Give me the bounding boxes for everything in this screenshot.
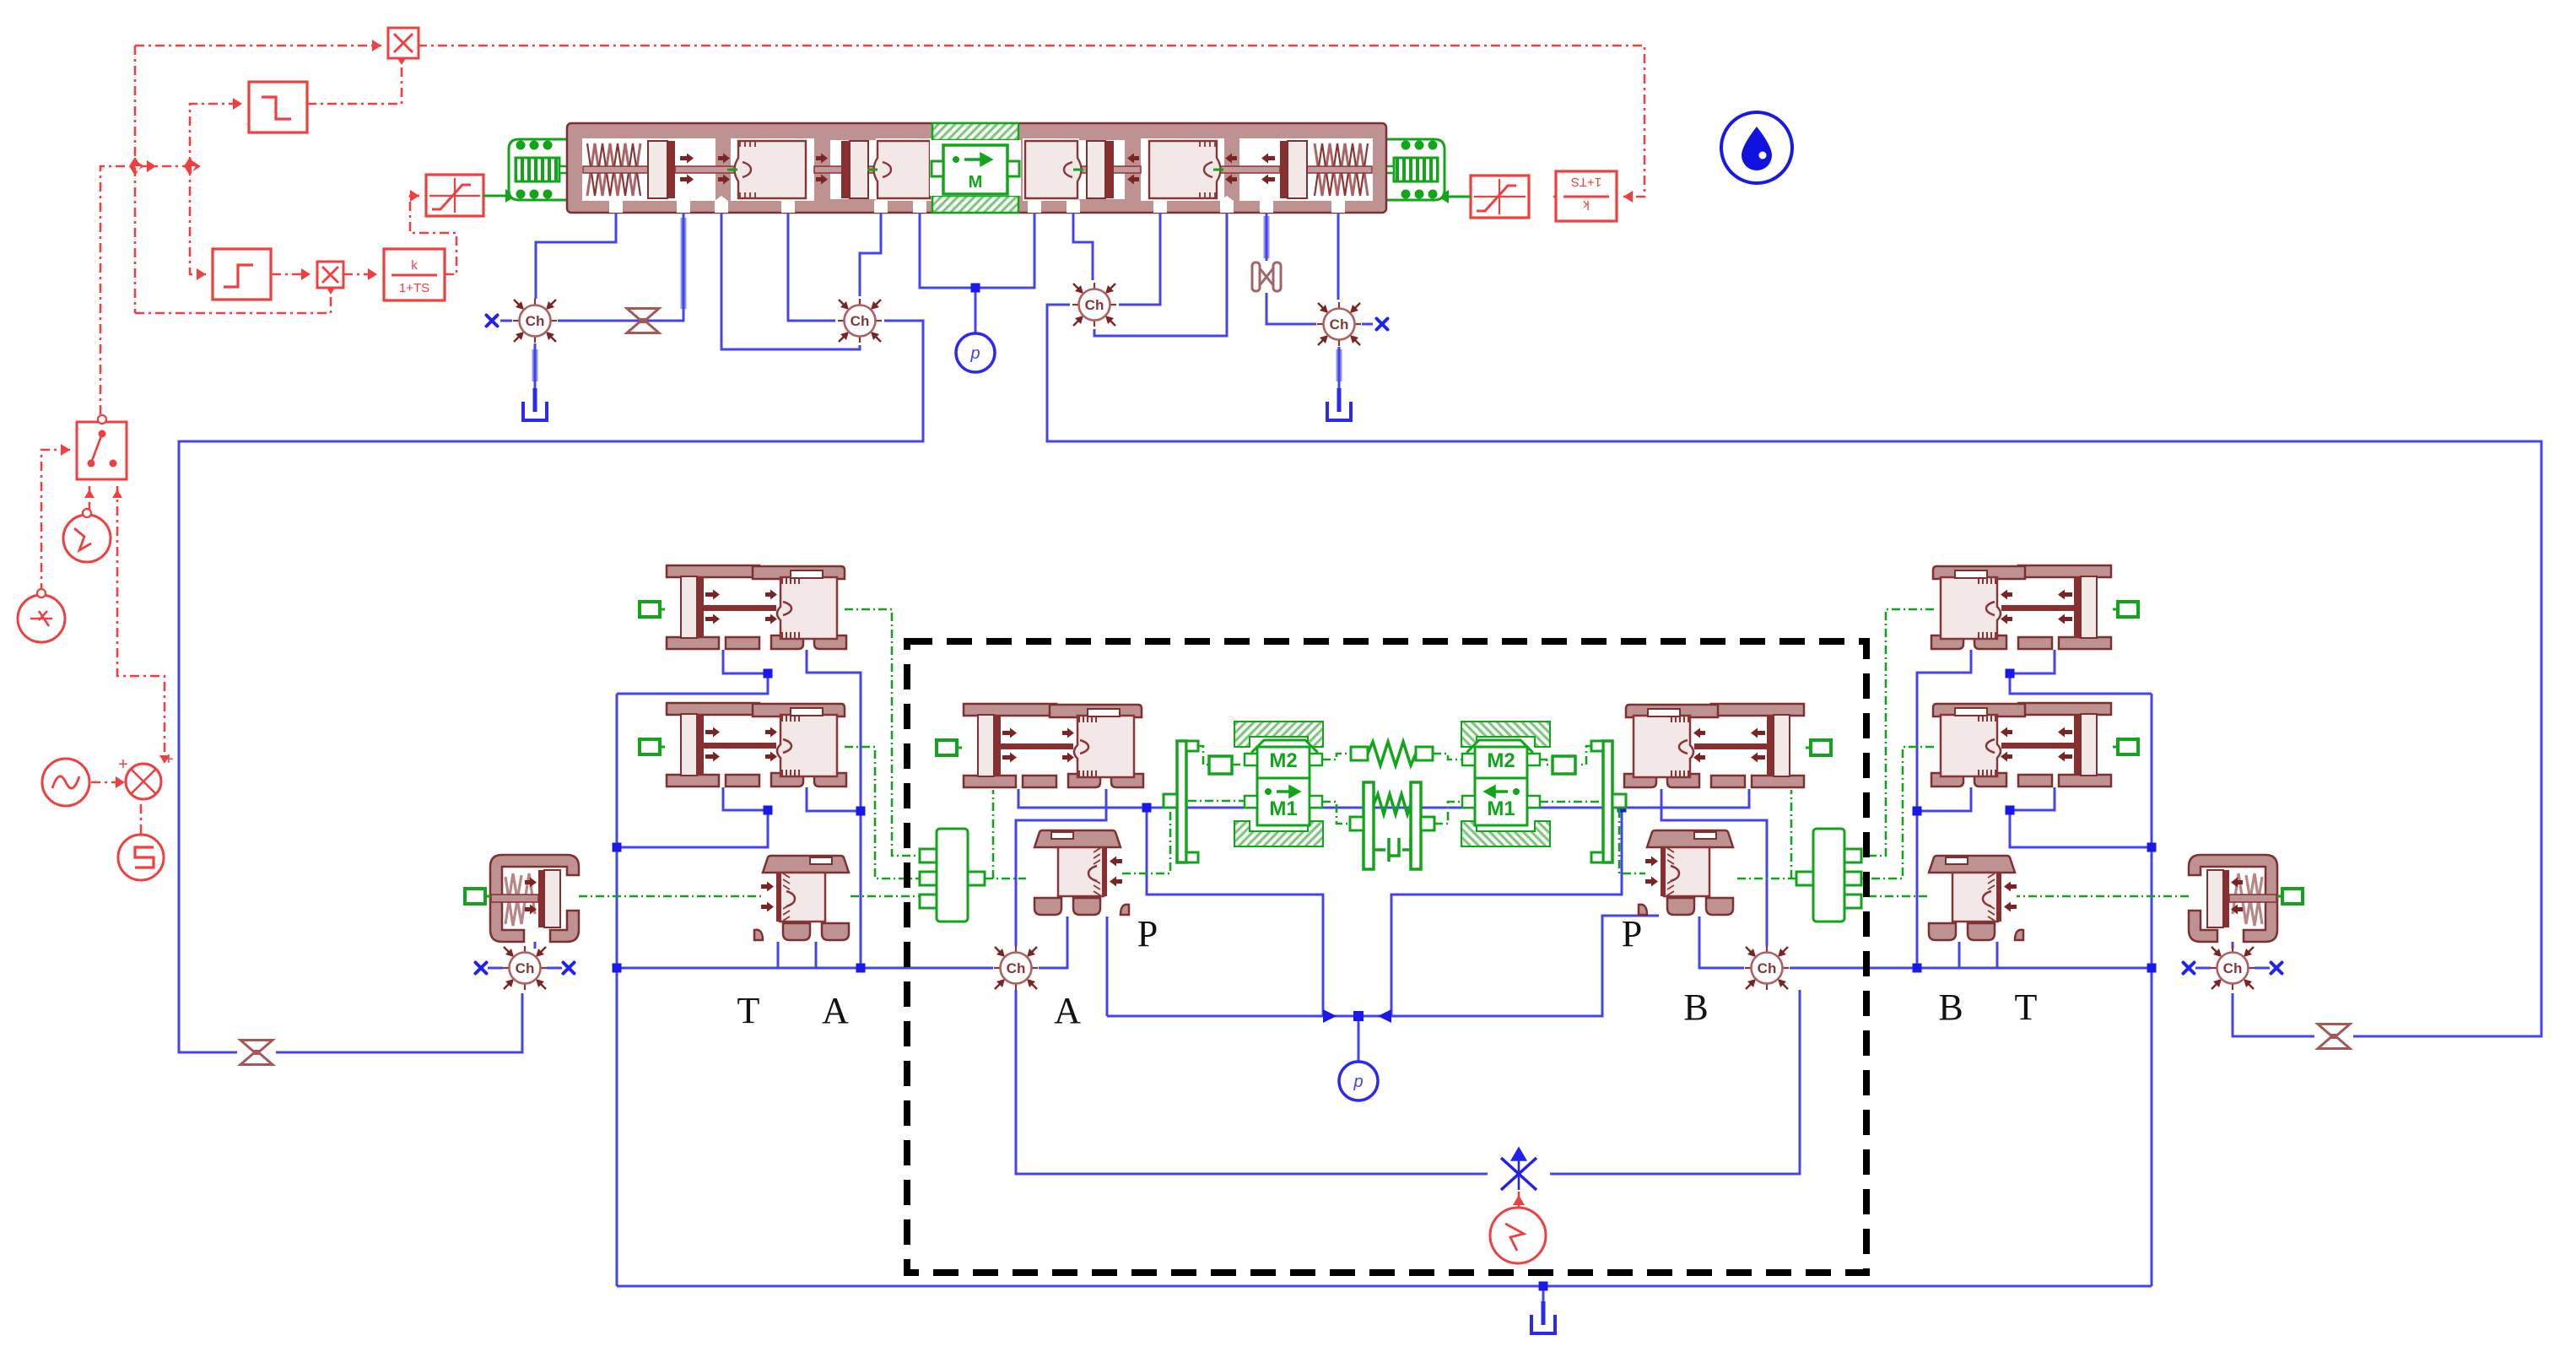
wire: right bus bbox=[2151, 694, 2153, 1286]
switch block bbox=[77, 415, 127, 479]
svg-text:T: T bbox=[737, 990, 760, 1031]
junction node arrows bbox=[129, 157, 156, 176]
chamber under relief right bbox=[2211, 946, 2255, 990]
wire: X cap links chamber BL bbox=[488, 967, 562, 970]
white cavities right half bbox=[1023, 138, 1373, 201]
fluid properties drop icon bbox=[1721, 112, 1792, 183]
valve L1 bbox=[667, 565, 846, 649]
wire: R3 ports bbox=[1959, 942, 1997, 968]
junction node (1156,341) bbox=[971, 284, 980, 293]
wire: Ch2 top jog to stub bbox=[860, 213, 881, 296]
wire: R1 command down bbox=[1861, 609, 1934, 856]
junction node (731,1147) bbox=[613, 964, 622, 973]
svg-text:M2: M2 bbox=[1269, 749, 1297, 772]
wire: interface right to pilot P-right bbox=[1735, 878, 1796, 880]
pressure gauge bottom bbox=[1339, 1062, 1378, 1100]
wire: cross line between box top valves bbox=[1018, 789, 1749, 808]
command stub R2 bbox=[2113, 739, 2138, 754]
chamber Ch3 bbox=[1072, 283, 1116, 327]
wire: A bus to chamber A bbox=[617, 967, 993, 970]
wire: chamber A bottom loop with variable orifice bbox=[1016, 990, 1488, 1174]
relief valve left bbox=[490, 855, 579, 942]
wire: signal source to switch bbox=[89, 486, 91, 511]
junction node (2550,1004) bbox=[2147, 843, 2157, 852]
pilot valve L3 bbox=[754, 856, 849, 940]
junction node (2382,960) bbox=[2006, 806, 2015, 815]
wire: sum output up to switch bbox=[117, 486, 165, 760]
wire: M2 left to spring bbox=[1322, 754, 1351, 760]
wire: L2 command down to interface port2 bbox=[845, 747, 920, 879]
wire: relief left to chamber bbox=[534, 942, 537, 949]
wire: Ch1 left cap bbox=[500, 320, 512, 322]
wire: feedback top line into multiplier bbox=[135, 45, 381, 47]
valve box-left-top bbox=[964, 704, 1143, 787]
wire: R2 right port bbox=[2010, 787, 2152, 847]
closed port X at Ch4 bbox=[1377, 319, 1388, 330]
wire: up into step-down block bbox=[190, 104, 242, 166]
svg-text:A: A bbox=[1054, 990, 1081, 1031]
svg-text:P: P bbox=[1622, 913, 1642, 954]
pilot valve P left bbox=[1034, 830, 1129, 915]
sine source bbox=[42, 759, 89, 806]
wire: step-up to small multiplier bbox=[272, 273, 311, 276]
pilot valve P right bbox=[1639, 830, 1733, 915]
connector box right bbox=[1553, 756, 1575, 774]
wire: R1 right port to right bus bbox=[2010, 650, 2152, 694]
port labels bbox=[737, 913, 2038, 1031]
wire: L2 poppet port bbox=[807, 787, 861, 811]
multiplier block X1 bbox=[388, 28, 419, 58]
junction node (1020,961) bbox=[856, 807, 866, 816]
tank bottom bbox=[1531, 1301, 1555, 1333]
wire: M2 right to connector box right bbox=[1540, 760, 1553, 765]
wire: stub through seat valve to Ch4 bbox=[1266, 213, 1316, 324]
wire: supply U bottom bbox=[1107, 916, 1659, 1016]
transfer function block right (rotated text) bbox=[1556, 171, 1617, 221]
wire: stub to Ch3 top bbox=[1073, 213, 1093, 280]
wire: transfer out up to saturation bbox=[410, 196, 456, 274]
pilot valve R3 bbox=[1929, 856, 2023, 940]
svg-text:+: + bbox=[164, 750, 174, 769]
wire: k gain up to switch input bbox=[41, 450, 70, 592]
chamber Ch2 bbox=[838, 299, 882, 343]
white cavities left half bbox=[582, 138, 932, 201]
svg-text:A: A bbox=[822, 990, 849, 1031]
wire: Ch3 bottom across to stub bbox=[1094, 213, 1227, 336]
chamber under relief left bbox=[503, 946, 547, 990]
interface block right bbox=[1796, 829, 1861, 922]
wire: M1 right to bracket right bbox=[1540, 801, 1601, 803]
wire: bracket top to connector box bbox=[1196, 746, 1209, 765]
wire: tank stub bottom bbox=[1542, 1286, 1545, 1310]
wire: Ch1 bottom to tank bbox=[534, 343, 537, 390]
wire: junction to junction bbox=[142, 165, 190, 168]
green link right saturation to solenoid bbox=[1448, 196, 1471, 198]
wire: R2 poppet port bbox=[1917, 787, 1971, 811]
wire: chamber B top to box valve bbox=[1661, 789, 1767, 946]
wire: square gen to sum bbox=[140, 802, 143, 834]
wire: sine to sum bbox=[91, 781, 122, 784]
wire: stub to Ch1 top bbox=[536, 213, 616, 299]
connector box left bbox=[1209, 756, 1232, 774]
svg-text:+: + bbox=[118, 755, 128, 774]
junction node (1020,1147) bbox=[856, 964, 866, 973]
junction node (2382,798) bbox=[2006, 669, 2015, 678]
command stub relief right bbox=[2277, 889, 2303, 904]
wire: pilot R3 to interface right bbox=[1861, 895, 1927, 898]
junction arrows at supply tee bbox=[1323, 1009, 1391, 1023]
wire: P-left to bracket left bbox=[1122, 809, 1170, 873]
wire: R2 command down bbox=[1861, 747, 1934, 879]
wire: spring to M2 right bbox=[1433, 754, 1462, 760]
wire: pipe1 Ch2 right, long loop to bottom-left chamber bbox=[179, 321, 923, 1052]
command stub relief left bbox=[465, 889, 490, 904]
chamber Ch4 bbox=[1317, 302, 1361, 346]
wire: relief right to chamber bbox=[2232, 942, 2234, 949]
mass assembly left bbox=[1234, 722, 1323, 846]
wire: interface to pilot P-left bbox=[985, 878, 1026, 880]
wire: small multiplier to transfer bbox=[343, 273, 377, 276]
central green mass M with hatched pads bbox=[932, 123, 1018, 140]
wire: B bus chamber B to right bus bbox=[1790, 967, 2152, 970]
tank under Ch4 bbox=[1327, 388, 1351, 420]
tank under Ch1 bbox=[523, 388, 547, 420]
wire: X cap links chamber BR bbox=[2195, 967, 2270, 970]
wire: spring-damper to M1 right bbox=[1434, 802, 1462, 824]
closed port X at Ch1 bbox=[487, 316, 498, 327]
wire: down into step-up block bbox=[190, 166, 206, 274]
wire: center U with gauge bbox=[920, 213, 1034, 332]
wire: chamber A top to box valve bbox=[1016, 789, 1106, 946]
interface block left bbox=[920, 829, 985, 922]
svg-text:M: M bbox=[969, 173, 983, 192]
svg-text:T: T bbox=[2015, 987, 2038, 1028]
force bracket left bbox=[1164, 741, 1198, 862]
chamber Ch1 bbox=[513, 299, 557, 343]
wire: left vertical trunk bbox=[134, 46, 137, 313]
command stub box-right bbox=[1806, 740, 1831, 755]
orifice bottom-left bbox=[240, 1041, 273, 1065]
relief valve right bbox=[2189, 855, 2277, 942]
square wave source bbox=[118, 835, 164, 880]
svg-text:B: B bbox=[1938, 987, 1963, 1028]
svg-text:P: P bbox=[1137, 913, 1158, 954]
wire: L2 left port bbox=[617, 787, 768, 847]
wire: bracket right top link bbox=[1580, 746, 1593, 765]
orifice bottom-right bbox=[2318, 1025, 2350, 1049]
saturation block left bbox=[426, 175, 483, 216]
valve box-right-top bbox=[1624, 704, 1804, 787]
svg-text:B: B bbox=[1683, 987, 1708, 1028]
wire: branch up to box valve command bbox=[992, 790, 995, 879]
wire: L1 poppet port down right bus bbox=[807, 650, 861, 968]
signal generator red bottom bbox=[1490, 1192, 1546, 1263]
spring-damper with end plates bbox=[1350, 782, 1434, 869]
wire: branch up right box valve command bbox=[1790, 790, 1793, 879]
wire: Ch4 right cap bbox=[1362, 323, 1373, 326]
wire: relief L to pilot L3 bbox=[579, 895, 761, 898]
wire: switch output up to junction bbox=[100, 166, 128, 414]
junction node (2272,1147) bbox=[1913, 964, 1922, 973]
junction node (731,1004) bbox=[613, 843, 622, 852]
wire: stub to Ch2 left bbox=[788, 213, 835, 321]
solenoid right bbox=[1369, 132, 1445, 207]
wire: pilot L3 to interface bbox=[851, 895, 920, 898]
orifice near Ch1 bbox=[627, 309, 659, 333]
svg-text:k: k bbox=[1583, 197, 1590, 212]
wire: multiplier output to right transfer block bbox=[418, 46, 1644, 197]
chamber A bbox=[994, 946, 1038, 990]
wire: Ch4 top bbox=[1337, 213, 1340, 300]
wire: R1 poppet port down bbox=[1917, 650, 1971, 968]
wire: bottom feedback line bbox=[135, 294, 331, 313]
command stub box-left bbox=[937, 740, 962, 755]
junction node (2272,961) bbox=[1913, 807, 1922, 816]
wire: step-down out to multiplier bottom bbox=[307, 64, 402, 104]
wire: chamber A right to pilot P left bbox=[1039, 916, 1067, 968]
transfer function block k/(1+TS) left bbox=[384, 249, 445, 300]
junction node (1829,1524) bbox=[1539, 1282, 1548, 1291]
wire: bottom return line bbox=[617, 1285, 2152, 1288]
wire: gauge stub bbox=[1358, 1016, 1360, 1061]
bottom port gaps bbox=[609, 196, 1345, 213]
svg-text:1+TS: 1+TS bbox=[399, 281, 429, 295]
X caps chamber BR bbox=[2184, 963, 2195, 974]
seat valve symbol bbox=[1252, 262, 1281, 291]
k gain circle bbox=[18, 589, 65, 642]
command stub L2 bbox=[640, 739, 665, 754]
wire: Ch4 bottom to tank bbox=[1338, 347, 1341, 390]
wire: L1 left port to left bus bbox=[617, 650, 768, 694]
wire: left bus bbox=[616, 694, 618, 1286]
wire: L1 command down to interface port1 bbox=[845, 609, 920, 856]
chamber B bbox=[1745, 946, 1789, 990]
wire: P left port down to supply U bbox=[1106, 916, 1109, 1016]
wire: pipe2 Ch3 left long loop to bottom-right chamber bbox=[1047, 305, 2541, 1036]
svg-text:1+TS: 1+TS bbox=[1571, 175, 1601, 189]
multiplier block X2 bbox=[317, 262, 343, 288]
junction node (2550,1147) bbox=[2147, 964, 2157, 973]
summing junction bbox=[118, 750, 174, 799]
valve L2 bbox=[667, 703, 846, 787]
wire: stub to Ch2 bottom bbox=[721, 213, 860, 349]
svg-text:k: k bbox=[411, 258, 418, 273]
spring between masses bbox=[1351, 742, 1433, 765]
step-down block bbox=[249, 82, 307, 132]
valve body bbox=[567, 123, 1386, 213]
command stub R1 bbox=[2113, 602, 2138, 617]
variable orifice bbox=[1501, 1149, 1536, 1190]
svg-text:M1: M1 bbox=[1269, 797, 1297, 820]
solenoid left bbox=[509, 132, 585, 207]
junction node (1922,957) bbox=[1617, 803, 1627, 813]
wire: bracket to M1 left bbox=[1188, 800, 1245, 803]
step-up block bbox=[213, 249, 271, 300]
junction node (910,960) bbox=[764, 806, 773, 815]
valve R2 bbox=[1931, 703, 2111, 787]
wire: L3 ports bbox=[778, 942, 816, 968]
force bracket right bbox=[1591, 741, 1626, 862]
signal source circle bbox=[63, 509, 111, 562]
pressure gauge top bbox=[956, 333, 995, 372]
wire: bracket right to P-right bbox=[1619, 809, 1645, 873]
spool internals left half bbox=[583, 141, 930, 198]
valve R1 bbox=[1931, 565, 2111, 649]
saturation block right bbox=[1471, 176, 1529, 218]
svg-text:M2: M2 bbox=[1487, 749, 1515, 772]
wire: M1 left to spring-damper bbox=[1322, 802, 1350, 824]
green link saturation to solenoid bbox=[483, 195, 506, 197]
svg-text:M1: M1 bbox=[1487, 797, 1515, 820]
command stub L1 bbox=[640, 602, 665, 617]
wire: chamber B left to pilot P right bbox=[1699, 916, 1744, 968]
wire: U risers to top valves bbox=[1147, 808, 1323, 1016]
wire: connector box to M2 left bbox=[1232, 764, 1245, 766]
wire: Ch3 right up to valve bbox=[1119, 213, 1160, 305]
wire: Ch1 right through orifice up to valve bbox=[558, 213, 683, 321]
junction node (1359,957) bbox=[1142, 803, 1152, 813]
junction node (910,798) bbox=[764, 669, 773, 678]
mass assembly right bbox=[1461, 722, 1550, 846]
wire: relief R to pilot R3 bbox=[2017, 895, 2189, 898]
X caps chamber BL bbox=[476, 963, 487, 974]
